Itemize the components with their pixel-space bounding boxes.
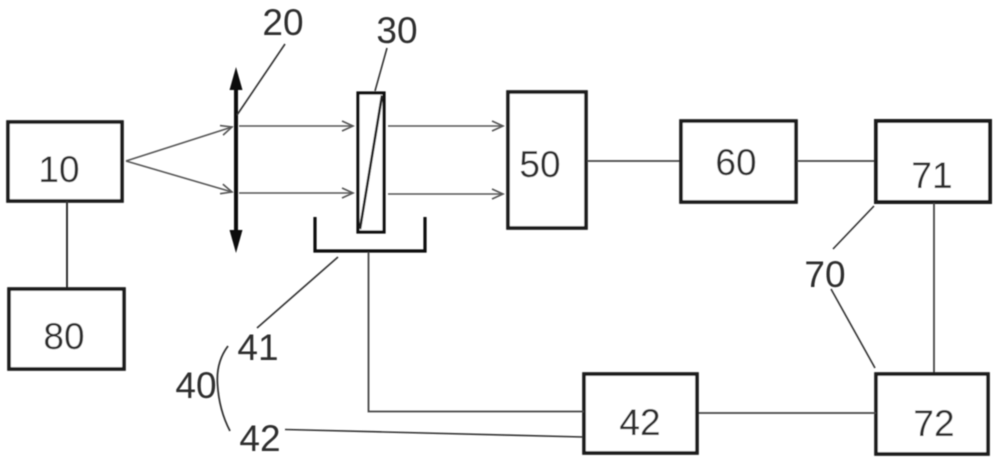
svg-text:71: 71 — [911, 155, 952, 196]
svg-text:41: 41 — [237, 327, 278, 368]
svg-text:40: 40 — [175, 365, 216, 406]
wire holder 41 to box 42 — [369, 252, 585, 412]
svg-text:42: 42 — [619, 402, 660, 443]
box 60 — [681, 121, 796, 202]
wire 10-80 — [66, 201, 68, 289]
leader 42 — [285, 430, 583, 438]
svg-text:42: 42 — [239, 418, 280, 459]
wire beam lower (lens to prism 30) — [239, 192, 353, 194]
holder 41 (bracket under prism) — [315, 217, 425, 251]
box 71 — [876, 121, 990, 202]
lens 20 (double-arrow vertical line) — [230, 67, 243, 253]
box 10 — [8, 122, 122, 201]
box 80 — [9, 289, 124, 369]
svg-text:50: 50 — [519, 144, 560, 185]
brace 40 — [217, 346, 230, 431]
svg-text:60: 60 — [715, 142, 756, 183]
leader 20 — [237, 44, 285, 115]
svg-text:30: 30 — [376, 10, 417, 51]
wire beam upper (prism to 50) — [388, 125, 503, 127]
leader 41 — [257, 257, 338, 328]
svg-text:80: 80 — [43, 316, 84, 357]
leader 30 — [375, 48, 387, 91]
wire 42-72 — [698, 412, 876, 414]
svg-text:72: 72 — [913, 403, 954, 444]
wire beam lower (prism to 50) — [388, 193, 503, 195]
wire beam fan lower (10 to lens 20) — [126, 161, 232, 192]
wire 60-71 — [797, 160, 875, 162]
box 42 — [584, 374, 697, 453]
wire 71-72 — [933, 203, 935, 374]
prism 30 (tilted etalon rectangle) — [358, 93, 384, 232]
svg-text:10: 10 — [38, 149, 79, 190]
box 72 — [876, 374, 988, 454]
leader 70 to box 72 — [831, 289, 875, 368]
wire 50-60 — [587, 160, 681, 162]
wire beam fan upper (10 to lens 20) — [126, 127, 232, 161]
wire beam upper (lens to prism 30) — [239, 125, 353, 127]
box 50 — [508, 92, 586, 228]
svg-text:70: 70 — [804, 254, 845, 295]
leader 70 to box 71 — [833, 206, 874, 249]
svg-text:20: 20 — [262, 2, 303, 43]
